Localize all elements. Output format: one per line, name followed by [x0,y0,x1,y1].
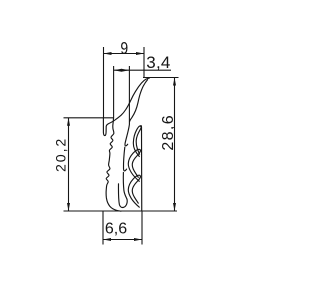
svg-text:20,2: 20,2 [54,137,70,172]
svg-text:28,6: 28,6 [160,114,177,151]
svg-text:9: 9 [120,40,128,59]
svg-text:6,6: 6,6 [105,220,127,237]
svg-text:3,4: 3,4 [146,53,170,72]
